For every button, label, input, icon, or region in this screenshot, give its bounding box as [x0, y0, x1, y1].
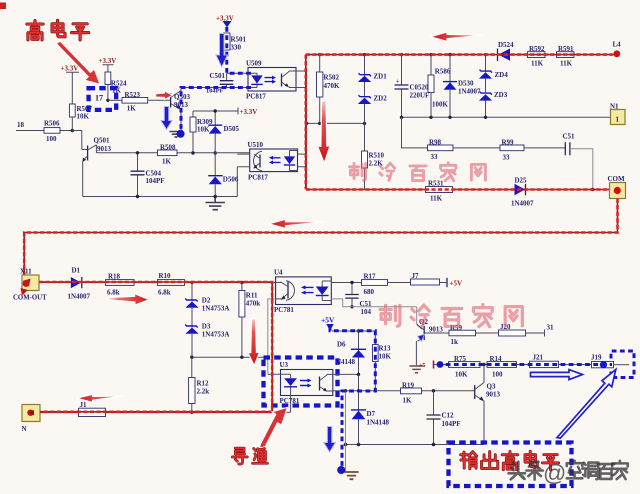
svg-text:104PF: 104PF — [442, 420, 461, 428]
svg-text:10K: 10K — [77, 113, 90, 121]
jumper J20 — [499, 323, 526, 336]
blue annotation triangle at +3.3V R501 — [223, 21, 232, 28]
svg-text:Q3: Q3 — [487, 383, 496, 391]
capacitor C504 104PF — [131, 151, 165, 198]
wire pin18 to R506 to node A — [16, 130, 82, 132]
L4 terminal dot — [613, 41, 622, 58]
svg-text:R12: R12 — [197, 380, 210, 388]
svg-text:+5V: +5V — [321, 316, 335, 325]
watermark zhilengbaijiawang bottom — [380, 305, 522, 327]
red arrow on N row pointing left — [77, 394, 124, 402]
capacitor C501 — [206, 72, 233, 95]
terminal N1 — [610, 103, 625, 125]
red wire rail to COM — [307, 189, 610, 191]
svg-text:R523: R523 — [125, 91, 141, 99]
svg-text:18: 18 — [17, 121, 25, 129]
svg-text:U509: U509 — [246, 60, 262, 68]
diode D7 1N4148 — [351, 391, 390, 445]
svg-text:C51: C51 — [563, 133, 576, 141]
svg-text:L4: L4 — [613, 41, 622, 49]
red dashed highlight: left vertical of top loop — [305, 55, 307, 190]
svg-text:ZD2: ZD2 — [374, 95, 388, 103]
wire node row to N1 — [402, 116, 611, 118]
vertical bus wire right of U509/U510 — [306, 71, 308, 190]
svg-text:31: 31 — [547, 324, 555, 332]
svg-text:9013: 9013 — [429, 325, 444, 333]
resistor R506 100 — [44, 120, 60, 143]
svg-text:D524: D524 — [498, 41, 514, 49]
node D506 ground row — [214, 195, 217, 198]
svg-text:+: + — [396, 79, 400, 85]
resistor R531 11K on red rail — [426, 180, 453, 203]
svg-text:@: @ — [543, 460, 566, 486]
svg-text:100: 100 — [492, 371, 503, 379]
node A junction R506/R507 — [71, 129, 74, 132]
resistor R508 1K — [158, 144, 178, 166]
wire U509 pin2 row to Q503 collector — [181, 87, 248, 89]
red arrow top-right pointing left — [431, 32, 485, 41]
svg-text:1: 1 — [616, 116, 620, 124]
svg-text:+3.3V: +3.3V — [99, 57, 117, 65]
resistor R591 11K — [557, 45, 575, 68]
ground for Q503 emitter — [170, 132, 183, 137]
red arrow from daotong to U3 box — [259, 407, 287, 451]
wire C501/R501 row to U509 pin1 — [227, 72, 248, 74]
resistor R586 100K — [428, 55, 451, 118]
transistor Q503 9013 — [171, 88, 191, 132]
svg-text:D25: D25 — [515, 177, 528, 185]
power +5V blue annotated — [321, 316, 335, 331]
svg-text:Q501: Q501 — [94, 137, 110, 145]
svg-text:R591: R591 — [558, 45, 574, 53]
red arrow mid pointing left — [269, 219, 327, 228]
wire U4 collector to R17 row — [331, 282, 361, 284]
blue hollow big diagonal arrow to J19 box — [557, 370, 616, 439]
svg-text:680: 680 — [364, 288, 375, 296]
svg-text:ZD1: ZD1 — [374, 73, 388, 81]
watermark zhilengbaijiawang top — [350, 163, 486, 181]
zener ZD2 — [358, 95, 387, 124]
zener ZD1 — [358, 55, 387, 96]
blue thick arrow below Q503 — [161, 107, 172, 130]
diode D530 1N4007 — [443, 55, 481, 118]
resistor R507 10K — [69, 104, 92, 131]
node C51-wire joins red rail — [591, 188, 595, 192]
node blue dot start — [437, 361, 444, 368]
node R309 bottom — [191, 151, 194, 154]
text gaodianping (red) — [27, 20, 89, 40]
svg-text:1N4007: 1N4007 — [68, 293, 91, 301]
blue dashed connector box at J19 — [611, 351, 634, 378]
svg-text:R18: R18 — [108, 273, 121, 281]
svg-text:330: 330 — [231, 43, 242, 51]
svg-text:X11: X11 — [20, 268, 32, 276]
MCU pin 17 node box (blue dashed) — [89, 88, 117, 110]
wire R14 to J21 — [517, 364, 530, 366]
resistor R13 10K — [332, 331, 392, 391]
resistor R12 2.2k — [189, 357, 210, 414]
svg-text:R501: R501 — [231, 36, 247, 44]
svg-text:2.2k: 2.2k — [197, 388, 210, 396]
wire R98 to R99 — [453, 147, 500, 149]
wire U3 emitter row to R19 — [333, 390, 401, 392]
svg-text:R98: R98 — [429, 138, 442, 146]
diode D524 on rail — [498, 41, 515, 61]
svg-text:1K: 1K — [127, 104, 137, 112]
svg-text:PC781: PC781 — [280, 397, 300, 405]
svg-text:R75: R75 — [454, 355, 467, 363]
node dots on top rail — [363, 53, 366, 56]
blue thick arrow below U3 toward ground — [324, 427, 336, 453]
blue dot end of dashed ground path — [337, 466, 345, 474]
red dashed highlight: over red rail to COM — [306, 188, 608, 191]
transistor Q2 9013 — [416, 307, 449, 366]
wire Q501 collector row to R508 — [96, 152, 157, 154]
svg-text:R14: R14 — [490, 355, 503, 363]
zener D3 1N4753A — [185, 323, 229, 358]
svg-text:1N4007: 1N4007 — [511, 200, 534, 208]
diode D1 1N4007 — [68, 267, 91, 301]
wire J19 into blue box — [614, 364, 630, 366]
blue thick arrow beside R501 — [216, 34, 228, 68]
resistor R524 1K — [105, 72, 127, 100]
capacitor C51 (top) — [563, 133, 576, 156]
svg-text:104: 104 — [361, 308, 372, 316]
resistor R592 11K — [528, 45, 546, 68]
transistor Q501 9013 — [72, 131, 111, 197]
svg-text:D506: D506 — [223, 176, 239, 184]
power +3.3V rail for R524 — [99, 57, 117, 72]
svg-text:11K: 11K — [560, 60, 573, 68]
wire bend down to R98 row — [402, 117, 428, 148]
diode D6 1N4148 — [336, 329, 366, 374]
svg-text:D2: D2 — [202, 297, 211, 305]
zener ZD4 — [479, 55, 508, 93]
transistor Q3 9013 — [475, 365, 501, 445]
resistor R98 33 — [428, 138, 454, 161]
wire J20 to pin31 — [526, 330, 545, 337]
red dashed highlight: top rail — [306, 54, 613, 56]
svg-text:220UF: 220UF — [410, 91, 430, 99]
power +5V tick for output row — [419, 361, 434, 369]
wire R75 to R14 — [480, 364, 487, 366]
svg-text:ZD4: ZD4 — [495, 71, 509, 79]
terminal N — [22, 405, 41, 434]
ground row bottom — [346, 444, 485, 446]
wire J21 to J19 — [559, 364, 592, 366]
diode D505 — [208, 109, 239, 153]
resistor R59 1k — [449, 324, 476, 346]
svg-text:6.8k: 6.8k — [158, 289, 171, 297]
svg-text:U3: U3 — [280, 361, 289, 369]
red small arrow at Q503 base — [156, 91, 173, 100]
optocoupler U509 PC817 — [246, 60, 307, 101]
red big arrow down center — [318, 101, 330, 163]
svg-text:C12: C12 — [442, 412, 455, 420]
resistor R501 330 — [224, 33, 247, 51]
top rail wire under red dash — [306, 54, 614, 56]
blue dot at Q503 ground — [177, 130, 185, 138]
svg-text:D6: D6 — [337, 341, 346, 349]
resistor R510 2.2K — [362, 123, 385, 189]
power +5V after J7 — [440, 278, 463, 288]
svg-text:D505: D505 — [224, 125, 240, 133]
svg-text:10K: 10K — [455, 371, 468, 379]
svg-text:100: 100 — [46, 135, 57, 143]
svg-text:+3.3V: +3.3V — [240, 108, 258, 116]
N row wire — [40, 411, 272, 413]
resistor R11 470k — [239, 283, 260, 358]
svg-text:R502: R502 — [324, 74, 340, 82]
resistor R309 10K — [190, 111, 213, 153]
svg-text:1N4753A: 1N4753A — [202, 305, 230, 313]
wire R99 to C51 — [524, 147, 565, 149]
svg-text:COM-OUT: COM-OUT — [13, 295, 47, 302]
red arrow on row1 pointing right — [109, 294, 150, 305]
resistor R523 1K — [122, 91, 148, 112]
optocoupler U510 PC817 — [237, 141, 306, 197]
svg-text:+3.3V: +3.3V — [61, 65, 79, 73]
wire R59 to J20 — [476, 332, 499, 334]
emitter ground row of Q501 — [83, 196, 238, 198]
red dashed highlight: COM down and across to left — [24, 199, 617, 276]
svg-text:10K: 10K — [197, 126, 210, 134]
blue dot at J19 — [600, 361, 607, 368]
vertical D6-node to emitter row — [358, 374, 360, 390]
blue dashed highlight +5V to R13 to ground path — [330, 327, 375, 467]
+3.3V row above D505 — [193, 108, 257, 117]
svg-text:D1: D1 — [72, 267, 81, 275]
zener D2 1N4753A — [185, 283, 229, 328]
blue dashed highlight +5V output row — [438, 363, 613, 366]
jumper J21 — [530, 354, 559, 368]
svg-text:R17: R17 — [364, 273, 377, 281]
svg-text:1k: 1k — [451, 338, 459, 346]
blue dashed highlight path R501-U509 — [227, 27, 251, 73]
main row1 wire X11 to U4 — [39, 282, 276, 284]
resistor R19 1K — [401, 382, 422, 405]
svg-text:10K: 10K — [379, 353, 392, 361]
red 3d arrow from gaodianping label to pin17 box — [57, 41, 101, 84]
jumper J19 — [591, 354, 614, 368]
svg-text:U510: U510 — [248, 141, 264, 149]
ground below D506 — [206, 197, 225, 210]
diode D25 1N4007 on red rail — [511, 177, 534, 208]
svg-text:R531: R531 — [428, 180, 444, 188]
capacitor C12 104PF — [427, 391, 461, 445]
wire R19 to Q3 base — [422, 390, 475, 392]
svg-text:D3: D3 — [202, 323, 211, 331]
svg-text:R11: R11 — [246, 292, 258, 300]
capacitor C51 (bottom) 104 — [345, 281, 372, 316]
resistor R14 100 — [487, 355, 517, 379]
svg-text:PC817: PC817 — [248, 174, 268, 182]
svg-text:1N4753A: 1N4753A — [202, 331, 230, 339]
svg-text:J7: J7 — [412, 272, 420, 280]
svg-text:R10: R10 — [159, 272, 172, 280]
svg-text:C0520: C0520 — [410, 84, 430, 92]
wire pin17 to R523 — [108, 99, 122, 101]
terminal COM — [608, 175, 626, 199]
ground Q2 emitter — [410, 366, 424, 373]
wire U3 collector to D6 node — [333, 373, 359, 375]
svg-text:N: N — [22, 425, 27, 433]
svg-text:COM: COM — [608, 175, 626, 183]
svg-text:33: 33 — [503, 154, 511, 162]
blue dashed highlight U509 to Q503 to ground — [181, 88, 251, 132]
svg-text:PC817: PC817 — [246, 93, 266, 101]
svg-text:R592: R592 — [529, 45, 545, 53]
svg-text:ZD3: ZD3 — [494, 91, 508, 99]
power +3.3V rail for R507 — [61, 65, 80, 105]
optocoupler U4 PC781 — [274, 269, 331, 315]
svg-text:R506: R506 — [44, 120, 60, 128]
wire row D3/R11/U4-emitter join — [192, 356, 268, 358]
svg-text:R508: R508 — [160, 144, 176, 152]
red dashed highlight row1/down/N-row — [39, 282, 272, 412]
svg-text:11K: 11K — [430, 195, 443, 203]
jumper J1 on N row — [79, 401, 106, 417]
svg-text:470K: 470K — [324, 82, 341, 90]
svg-text:R510: R510 — [369, 152, 385, 160]
svg-text:33: 33 — [431, 153, 439, 161]
svg-text:PC781: PC781 — [274, 306, 294, 314]
watermark toutiao kongtiaobaijia (gray) — [509, 461, 628, 480]
svg-text:17: 17 — [95, 94, 103, 103]
svg-text:U4: U4 — [274, 269, 283, 277]
svg-text:9013: 9013 — [486, 391, 501, 399]
svg-text:104PF: 104PF — [146, 177, 165, 185]
svg-text:D530: D530 — [458, 80, 474, 88]
zener ZD3 — [479, 91, 508, 117]
svg-text:470k: 470k — [246, 300, 260, 308]
svg-text:+5: +5 — [419, 363, 425, 369]
tiny red mark top-left corner — [0, 3, 6, 10]
wire R523 to Q503 base — [148, 99, 171, 101]
wire ground-row stem and ground symbol — [344, 391, 358, 479]
capacitor C0520 220UF — [395, 55, 430, 118]
svg-text:J1: J1 — [80, 401, 88, 409]
power +3.3V for R501 — [216, 15, 234, 23]
svg-text:R13: R13 — [379, 345, 392, 353]
terminal X11 COM-OUT — [13, 268, 47, 302]
svg-text:J19: J19 — [591, 354, 602, 362]
wire R17 to J7 — [388, 282, 411, 284]
svg-text:1K: 1K — [162, 157, 172, 165]
svg-text:100K: 100K — [432, 101, 449, 109]
resistor R502 470K — [317, 55, 341, 124]
blue dashed box shuchu-gaodianping — [449, 443, 572, 487]
svg-text:+5V: +5V — [450, 280, 463, 288]
svg-text:R586: R586 — [435, 68, 451, 76]
svg-text:11K: 11K — [531, 60, 544, 68]
blue hollow arrow pointing right at output row — [531, 370, 583, 380]
svg-text:9013: 9013 — [97, 145, 112, 153]
resistor R17 680 — [362, 273, 388, 297]
svg-text:R99: R99 — [502, 138, 515, 146]
svg-text:D7: D7 — [367, 410, 376, 418]
wire C51 to COM node — [570, 149, 593, 190]
resistor R75 10K — [449, 355, 481, 379]
optocoupler U3 PC781 — [268, 361, 333, 412]
svg-text:1N4148: 1N4148 — [367, 419, 390, 427]
wire lower node row left — [307, 122, 365, 124]
svg-text:1N4007: 1N4007 — [458, 88, 481, 96]
wire C51 row to Q2 base corner — [343, 299, 417, 307]
node D2 top / R11 top — [190, 281, 193, 284]
wire U4 emitter down to U3 — [268, 299, 343, 374]
text daotong (red) — [232, 448, 267, 464]
blue small arrow at Q2 emitter — [418, 334, 425, 341]
wire R508 to R309/D505 nodes to U510 — [177, 152, 250, 154]
svg-text:C501: C501 — [210, 72, 226, 80]
red arrow down from R11 row to U3 area — [248, 319, 260, 366]
diode D506 — [208, 151, 239, 196]
text shuchugaodianping (red) — [461, 451, 559, 470]
resistor R18 6.8k — [106, 273, 135, 297]
svg-text:1K: 1K — [403, 397, 413, 405]
svg-text:R19: R19 — [402, 382, 415, 390]
wire +5V row to R75 — [433, 364, 449, 366]
svg-text:J21: J21 — [533, 354, 544, 362]
blue dashed box around U3 — [264, 358, 338, 406]
jumper J7 — [411, 272, 440, 285]
resistor R99 33 — [500, 138, 524, 161]
svg-text:6.8k: 6.8k — [107, 289, 120, 297]
resistor R10 6.8k — [158, 272, 185, 297]
